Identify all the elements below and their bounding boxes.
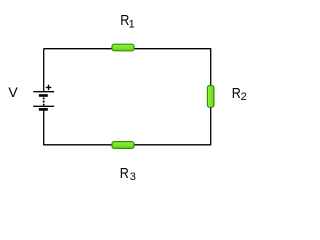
svg-text:V: V — [8, 84, 18, 100]
svg-text:3: 3 — [130, 171, 136, 183]
svg-text:2: 2 — [241, 91, 247, 103]
svg-text:1: 1 — [129, 18, 135, 30]
svg-text:R: R — [232, 84, 241, 101]
svg-text:R: R — [120, 164, 129, 181]
